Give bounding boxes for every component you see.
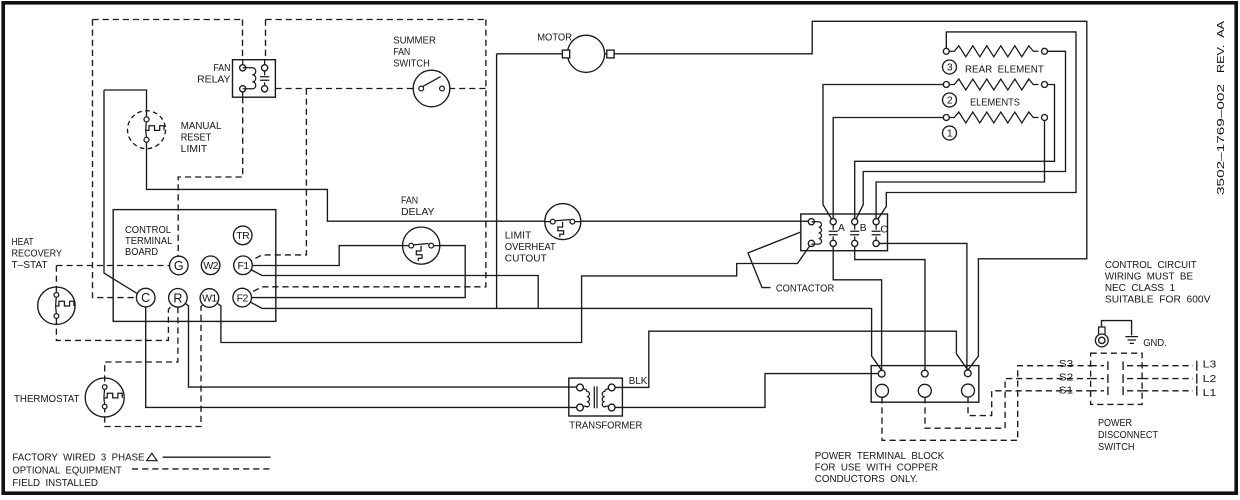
svg-text:L1: L1 (1203, 388, 1217, 399)
svg-text:FACTORY WIRED 3 PHASE: FACTORY WIRED 3 PHASE (12, 452, 144, 463)
svg-text:BLK: BLK (629, 376, 648, 387)
svg-text:OPTIONAL EQUIPMENT: OPTIONAL EQUIPMENT (12, 465, 122, 476)
svg-text:S1: S1 (1059, 386, 1074, 397)
svg-text:T–STAT: T–STAT (12, 260, 49, 271)
svg-text:SUMMER: SUMMER (393, 35, 436, 46)
svg-text:POWER: POWER (1098, 418, 1132, 429)
svg-text:L2: L2 (1203, 374, 1217, 385)
svg-text:FAN: FAN (393, 47, 410, 58)
svg-text:S2: S2 (1059, 372, 1074, 383)
svg-text:A: A (838, 223, 845, 234)
svg-text:W2: W2 (203, 260, 218, 272)
svg-text:OVERHEAT: OVERHEAT (505, 242, 557, 253)
svg-text:REAR ELEMENT: REAR ELEMENT (965, 64, 1044, 75)
svg-text:SUITABLE FOR 600V: SUITABLE FOR 600V (1105, 295, 1211, 306)
svg-text:DISCONNECT: DISCONNECT (1098, 430, 1159, 441)
svg-text:REV. AA: REV. AA (1216, 21, 1227, 73)
svg-text:NEC CLASS 1: NEC CLASS 1 (1105, 283, 1175, 294)
svg-text:C: C (880, 225, 888, 236)
svg-text:MOTOR: MOTOR (537, 32, 572, 43)
svg-text:2: 2 (947, 95, 953, 107)
svg-text:CONTROL CIRCUIT: CONTROL CIRCUIT (1105, 260, 1197, 271)
svg-text:W1: W1 (202, 293, 217, 305)
svg-text:S3: S3 (1059, 359, 1074, 370)
svg-text:F2: F2 (237, 292, 249, 304)
svg-text:HEAT: HEAT (12, 237, 35, 248)
svg-text:G: G (174, 259, 184, 273)
svg-text:TERMINAL: TERMINAL (125, 236, 173, 247)
svg-text:FIELD INSTALLED: FIELD INSTALLED (12, 478, 98, 489)
svg-text:POWER TERMINAL BLOCK: POWER TERMINAL BLOCK (815, 451, 945, 462)
svg-text:GND.: GND. (1143, 338, 1167, 349)
svg-text:FAN: FAN (213, 63, 230, 74)
svg-text:DELAY: DELAY (401, 207, 435, 218)
svg-text:SWITCH: SWITCH (1098, 442, 1135, 453)
svg-text:CONTROL: CONTROL (125, 225, 171, 236)
svg-text:FAN: FAN (401, 196, 418, 207)
svg-text:BOARD: BOARD (125, 247, 158, 258)
svg-text:RELAY: RELAY (197, 74, 231, 85)
svg-text:CUTOUT: CUTOUT (505, 253, 548, 264)
svg-text:RESET: RESET (181, 133, 212, 144)
svg-text:RECOVERY: RECOVERY (12, 249, 63, 260)
svg-text:F1: F1 (237, 260, 249, 272)
svg-text:R: R (173, 291, 182, 305)
svg-text:B: B (860, 223, 867, 234)
svg-text:1: 1 (947, 128, 953, 140)
svg-text:LIMIT: LIMIT (505, 231, 532, 242)
svg-text:SWITCH: SWITCH (393, 58, 430, 69)
svg-text:LIMIT: LIMIT (181, 144, 208, 155)
svg-text:3: 3 (947, 62, 953, 74)
svg-text:THERMOSTAT: THERMOSTAT (14, 394, 80, 405)
svg-text:ELEMENTS: ELEMENTS (970, 97, 1020, 108)
svg-text:FOR USE WITH COPPER: FOR USE WITH COPPER (815, 463, 938, 474)
svg-text:C: C (141, 291, 150, 305)
svg-text:3502–1769–002: 3502–1769–002 (1216, 84, 1227, 195)
svg-text:L3: L3 (1203, 360, 1217, 371)
svg-text:CONTACTOR: CONTACTOR (776, 284, 834, 295)
svg-text:TR: TR (236, 230, 250, 242)
svg-text:WIRING MUST BE: WIRING MUST BE (1105, 271, 1193, 282)
svg-text:TRANSFORMER: TRANSFORMER (569, 421, 642, 432)
svg-text:CONDUCTORS ONLY.: CONDUCTORS ONLY. (815, 474, 918, 485)
svg-text:MANUAL: MANUAL (181, 121, 222, 132)
